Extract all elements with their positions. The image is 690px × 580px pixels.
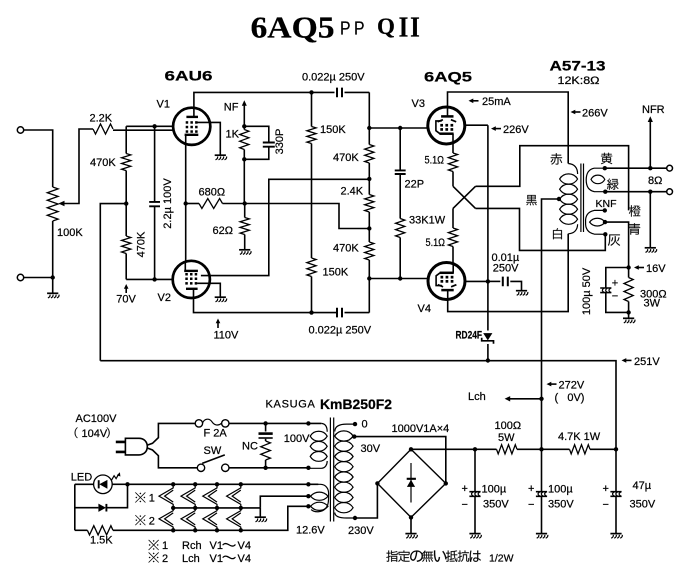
node 680-62 junction <box>243 201 247 205</box>
svg-text:5W: 5W <box>498 432 515 444</box>
ground below pot <box>47 293 59 298</box>
resistor 2.4K <box>365 179 374 229</box>
arrow 25mA <box>469 99 479 104</box>
wire 8ohm hot <box>605 167 667 169</box>
svg-text:0.022µ 250V: 0.022µ 250V <box>309 324 372 336</box>
label 62ohm <box>213 225 233 237</box>
label minus c2 <box>528 499 534 511</box>
label 33K1W <box>409 215 446 227</box>
svg-text:0: 0 <box>362 418 368 430</box>
svg-text:−: − <box>528 499 534 511</box>
wire V1 plate to top rail <box>194 92 312 107</box>
node V4 grid <box>367 276 371 280</box>
label 470K upper <box>90 157 116 169</box>
wire V1 screen to ground <box>198 122 221 155</box>
svg-text:226V: 226V <box>503 124 529 136</box>
OPT secondary 8ohm winding <box>586 168 605 192</box>
node zener rail <box>486 358 490 362</box>
arrow 251V <box>622 358 632 363</box>
resistor 470K (lower grid leak) <box>122 204 131 280</box>
label 3W <box>644 298 661 310</box>
label 12K:8ohm <box>558 75 600 87</box>
node 2.2uF top <box>152 124 156 128</box>
wire V4 plate line <box>448 234 569 312</box>
node KNF tap <box>603 208 607 212</box>
resistor 5.1ohm (V4) <box>448 228 457 263</box>
node NC top <box>263 421 267 425</box>
label plus c1 <box>462 483 468 495</box>
pot wiper arrow <box>58 129 93 206</box>
wire LED row <box>75 483 128 485</box>
svg-text:NFR: NFR <box>642 104 665 116</box>
resistor 470K (upper grid leak) <box>122 126 131 203</box>
svg-text:680Ω: 680Ω <box>199 187 226 199</box>
wire V2 grid line <box>126 278 173 280</box>
svg-text:100K: 100K <box>57 227 83 239</box>
snubber NC (cap+resistor) <box>259 423 273 467</box>
svg-text:100V: 100V <box>284 433 310 445</box>
label RD24F <box>456 330 483 342</box>
svg-text:33K1W: 33K1W <box>409 215 446 227</box>
wire gray lower path <box>476 208 606 250</box>
svg-text:1000V1A×4: 1000V1A×4 <box>392 423 450 435</box>
arrow 266V <box>571 110 581 115</box>
wire jack1 to pot top <box>24 130 53 187</box>
svg-text:12K:8Ω: 12K:8Ω <box>558 75 600 87</box>
diode RD24F zener <box>482 333 494 344</box>
label 47u <box>633 480 652 492</box>
svg-text:NF: NF <box>224 102 239 114</box>
node 22P top <box>398 126 402 130</box>
svg-text:KNF: KNF <box>596 198 617 210</box>
label KASUGA <box>266 399 316 411</box>
wire V2 screen-2 to ladder <box>201 179 369 275</box>
label 350V c3 <box>630 498 656 510</box>
svg-text:( 0V): ( 0V) <box>555 392 585 404</box>
input jack J1 (top) <box>17 127 23 133</box>
svg-text:250V: 250V <box>493 263 519 275</box>
svg-text:470K: 470K <box>333 243 359 255</box>
svg-text:1: 1 <box>149 493 155 505</box>
label 100u 50V (rotated) <box>581 267 593 315</box>
label 2.4K <box>341 186 364 198</box>
label 12.6V <box>296 524 325 536</box>
svg-text:−: − <box>603 499 609 511</box>
label V3 <box>412 98 425 110</box>
svg-text:2: 2 <box>149 515 155 527</box>
node green tap <box>603 190 607 194</box>
node Lch tap <box>539 397 543 401</box>
ground c2 <box>536 534 548 539</box>
label AC100V <box>76 413 118 425</box>
resistor 470K ladder lower <box>365 229 374 279</box>
node filter2 <box>539 447 543 451</box>
svg-text:A57-13: A57-13 <box>550 58 606 74</box>
wire crossover diagonal 2 <box>453 186 476 208</box>
heaters row 1 (Rch V1-V4) <box>159 484 241 508</box>
label 150K upper <box>320 124 346 136</box>
svg-text:II: II <box>399 13 422 44</box>
svg-text:V1: V1 <box>157 99 170 111</box>
ground 0.01u <box>516 291 528 296</box>
node screen 0.01u <box>486 279 490 283</box>
label plus c2 <box>528 483 534 495</box>
NFR arrow <box>648 116 653 168</box>
node 0 tap <box>353 422 357 426</box>
svg-text:Lch: Lch <box>182 553 200 565</box>
label 30V <box>361 443 381 455</box>
OPT core <box>581 164 584 233</box>
label plus c3 <box>603 483 609 495</box>
svg-text:V4: V4 <box>238 553 251 565</box>
label 470K ladder upper <box>333 152 359 164</box>
node 1K bottom <box>242 157 246 161</box>
node 16V <box>626 265 630 269</box>
label LED <box>71 472 92 484</box>
svg-text:5.1Ω: 5.1Ω <box>426 237 446 249</box>
label minus 100u50V <box>612 291 618 303</box>
svg-text:2.2K: 2.2K <box>90 113 113 125</box>
label *1 <box>135 492 155 504</box>
terminal 8ohm cold <box>667 189 673 195</box>
capacitor 100uF 350V #1 <box>469 449 480 533</box>
svg-text:5.1Ω: 5.1Ω <box>425 155 445 167</box>
node 1K top <box>242 124 246 128</box>
label 16V <box>646 263 666 275</box>
wire V4 grid line <box>369 278 428 280</box>
OPT primary center tap <box>542 197 562 399</box>
label (104V) <box>75 428 110 440</box>
resistor 150K (V2 plate load) <box>307 258 316 313</box>
svg-text:F 2A: F 2A <box>204 428 228 440</box>
svg-text:25mA: 25mA <box>482 96 511 108</box>
svg-text:272V: 272V <box>559 380 585 392</box>
label ki (yellow) <box>601 153 612 164</box>
wire V3 plate to OPT <box>448 92 569 164</box>
ground V2 screen <box>215 297 227 302</box>
ground 8ohm <box>645 248 657 253</box>
wire V2 plate down to 110V line <box>194 298 338 312</box>
heaters row 2 (Lch V1-V4) <box>159 508 241 530</box>
svg-text:1K: 1K <box>226 129 240 141</box>
svg-text:350V: 350V <box>548 498 574 510</box>
label F 2A <box>204 428 228 440</box>
node heater mid tap <box>306 494 310 498</box>
label 4.7K1W <box>558 431 601 443</box>
svg-text:V2: V2 <box>158 292 171 304</box>
label 110V <box>214 330 240 342</box>
ground bridge <box>405 534 417 539</box>
wire V4 cathode to 5.1ohm <box>452 208 454 228</box>
NF feedback arrow <box>242 100 247 126</box>
note *1 Rch <box>148 540 250 552</box>
tube V4 6AQ5 <box>428 263 465 301</box>
node 2.2uF bottom <box>152 277 156 281</box>
svg-text:NC: NC <box>242 441 258 453</box>
capacitor 0.022uF 250V (top) <box>312 88 370 98</box>
potentiometer 100K <box>47 187 58 221</box>
wire cathode node to ladder tap <box>245 204 370 229</box>
fuse F 2A <box>195 419 229 427</box>
svg-text:470K: 470K <box>90 157 116 169</box>
resistor 33K 1W <box>396 219 405 279</box>
label 470K ladder lower <box>333 243 359 255</box>
wire bridge bottom to ground <box>410 517 412 533</box>
title text 6AQ5 PP Q II <box>251 10 422 45</box>
node filter1 <box>473 447 477 451</box>
switch SW <box>197 455 229 472</box>
label 350V c1 <box>483 498 509 510</box>
resistor 680ohm <box>186 199 245 209</box>
svg-text:V1: V1 <box>210 540 223 552</box>
label 0 <box>362 418 368 430</box>
svg-text:47µ: 47µ <box>633 480 652 492</box>
AC plug <box>116 438 148 455</box>
svg-text:0.022µ 250V: 0.022µ 250V <box>302 71 365 83</box>
label 266V <box>582 107 608 119</box>
svg-text:266V: 266V <box>582 107 608 119</box>
wire V3 cathode to 5.1ohm <box>452 144 454 153</box>
PT core <box>330 418 333 522</box>
label 2.2u 100V (rotated) <box>162 178 174 229</box>
node 8ohm gnd junction <box>648 190 652 194</box>
bridge rectifier diamond <box>377 449 445 517</box>
resistor 62ohm <box>240 204 249 250</box>
wire V3 grid line <box>369 127 428 129</box>
node gray tap <box>603 232 607 236</box>
svg-text:V4: V4 <box>418 303 431 315</box>
wire plug to fuse <box>147 423 195 445</box>
svg-text:2.2µ 100V: 2.2µ 100V <box>162 178 174 229</box>
label NF <box>224 102 239 114</box>
wire switch to transformer <box>229 467 308 469</box>
svg-text:+: + <box>603 483 609 495</box>
svg-text:1: 1 <box>162 540 168 552</box>
label 100K <box>57 227 83 239</box>
svg-text:Rch: Rch <box>182 540 202 552</box>
wire ladder to bottom cap <box>368 279 370 313</box>
svg-text:−: − <box>462 499 468 511</box>
svg-text:3W: 3W <box>644 298 661 310</box>
svg-text:150K: 150K <box>320 124 346 136</box>
resistor 100ohm 5W <box>497 445 542 454</box>
wire bridge output <box>411 448 497 450</box>
heater junction dots <box>171 482 243 532</box>
svg-text:1.5K: 1.5K <box>90 534 113 546</box>
wire screens bus <box>487 125 489 330</box>
svg-text:70V: 70V <box>116 294 136 306</box>
svg-text:1/2W: 1/2W <box>489 552 514 564</box>
label *2 <box>135 515 155 527</box>
wire 8ohm cold <box>605 191 666 193</box>
svg-text:+: + <box>528 483 534 495</box>
node ladder mid2 <box>367 226 371 230</box>
svg-text:350V: 350V <box>483 498 509 510</box>
wire divider to B+ rail <box>100 204 126 361</box>
terminal 8ohm hot <box>667 165 673 171</box>
svg-text:2: 2 <box>162 553 168 565</box>
svg-text:V1: V1 <box>210 553 223 565</box>
resistor 150K (V1 plate load) <box>307 92 316 258</box>
capacitor 330P <box>244 126 274 159</box>
note *2 Lch <box>148 552 250 565</box>
svg-text:6AU6: 6AU6 <box>165 68 213 84</box>
wire heater bottom rail <box>173 506 308 530</box>
label 1K <box>226 129 240 141</box>
label 230V <box>348 525 374 537</box>
svg-text:150K: 150K <box>323 267 349 279</box>
label 680ohm <box>199 187 226 199</box>
label 226V <box>503 124 529 136</box>
label KNF <box>596 198 617 210</box>
node mid tap 16V <box>603 220 607 224</box>
LED D1 <box>94 472 121 493</box>
svg-text:6AQ5: 6AQ5 <box>424 69 472 85</box>
label 100u c1 <box>482 483 507 495</box>
Lch arrow <box>505 396 542 401</box>
svg-text:Lch: Lch <box>468 391 486 403</box>
svg-text:30V: 30V <box>361 443 381 455</box>
diode D2 <box>98 504 106 512</box>
svg-text:6AQ5: 6AQ5 <box>251 10 335 45</box>
node NC bottom <box>263 466 267 470</box>
label A57-13 <box>550 58 606 74</box>
svg-text:RD24F: RD24F <box>456 330 483 342</box>
tube V3 6AQ5 <box>428 106 465 144</box>
label 100V <box>284 433 310 445</box>
svg-text:62Ω: 62Ω <box>213 225 233 237</box>
arrow 70V <box>124 284 129 293</box>
node heater bottom tap <box>306 504 310 508</box>
wire 16V tap <box>605 222 629 267</box>
node primary bottom <box>306 466 310 470</box>
svg-text:470K: 470K <box>135 231 147 257</box>
capacitor 0.01uF 250V <box>488 277 522 291</box>
label NC <box>242 441 258 453</box>
svg-text:KmB250F2: KmB250F2 <box>320 397 392 412</box>
label KmB250F2 <box>320 397 392 412</box>
wire plug to switch <box>147 448 197 468</box>
node bridge left <box>375 481 379 485</box>
node 33K bottom <box>398 276 402 280</box>
resistor 1K <box>240 126 249 159</box>
label SW <box>204 445 222 457</box>
node bridge top <box>409 447 413 451</box>
wire fuse to transformer <box>229 422 321 424</box>
svg-text:100µ: 100µ <box>482 483 507 495</box>
svg-text:230V: 230V <box>348 525 374 537</box>
PT HV secondary winding <box>335 424 355 518</box>
label 150K lower <box>323 267 349 279</box>
wire V1 cathode down <box>185 144 187 262</box>
OPT primary winding <box>560 164 578 234</box>
label 330P (rotated) <box>274 129 286 155</box>
svg-text:−: − <box>612 291 618 303</box>
label 272V <box>559 380 585 392</box>
ground c3 <box>610 534 622 539</box>
svg-text:+: + <box>612 278 618 290</box>
wire mid rail up to tap <box>260 496 308 508</box>
svg-text:330P: 330P <box>274 129 286 155</box>
wire cap to V3 grid node <box>368 92 370 128</box>
wire 230V to bridge <box>355 483 377 518</box>
label 350V c2 <box>548 498 574 510</box>
OPT secondary KNF winding <box>586 210 606 234</box>
label ao (blue) <box>629 223 640 234</box>
PT 12.6V winding <box>308 484 328 511</box>
svg-text:4.7K 1W: 4.7K 1W <box>558 431 601 443</box>
node ladder mid1 <box>367 177 371 181</box>
label NFR <box>642 104 665 116</box>
label 250V <box>493 263 519 275</box>
label Lch <box>468 391 486 403</box>
wire heater top rail <box>128 483 319 485</box>
label kuro (black) <box>526 195 536 205</box>
label 6AU6 <box>165 68 213 84</box>
label 300ohm <box>640 289 667 301</box>
wire 251V rail <box>100 361 616 450</box>
label 2.2K <box>90 113 113 125</box>
label 0.022u 250V top <box>302 71 365 83</box>
svg-text:AC100V: AC100V <box>76 413 118 425</box>
PT 100V primary winding <box>308 423 327 468</box>
wire heater mid rail <box>173 507 260 509</box>
svg-text:2.4K: 2.4K <box>341 186 364 198</box>
ground 62ohm <box>239 250 251 255</box>
node pot bottom <box>51 275 55 279</box>
resistor 2.2K <box>93 124 113 134</box>
svg-text:+: + <box>462 483 468 495</box>
label 6AQ5 header <box>424 69 472 85</box>
tube V2 6AU6 <box>173 261 210 299</box>
node cathode junction <box>184 201 188 205</box>
svg-text:251V: 251V <box>634 356 660 368</box>
resistor 300ohm 3W <box>624 268 633 319</box>
capacitor 100uF 350V #2 <box>536 449 547 533</box>
label 251V <box>634 356 660 368</box>
resistor 470K ladder upper <box>365 128 374 179</box>
arrow 272V <box>547 382 557 387</box>
label 100ohm <box>495 420 522 432</box>
svg-text:100µ: 100µ <box>548 483 573 495</box>
node bridge right <box>444 481 448 485</box>
node 30V tap <box>352 434 356 438</box>
label minus c1 <box>462 499 468 511</box>
node heater top tap <box>306 482 310 486</box>
resistor 4.7K 1W <box>542 445 617 454</box>
label shiro (white) <box>553 228 562 239</box>
arrow 16V <box>634 265 644 270</box>
ground 300ohm <box>623 318 635 323</box>
label 70V <box>116 294 136 306</box>
node 470K junction <box>124 201 128 205</box>
wire crossover diagonal 1 <box>453 186 476 208</box>
svg-text:SW: SW <box>204 445 222 457</box>
label plus 100u50V <box>612 278 618 290</box>
svg-text:110V: 110V <box>214 330 240 342</box>
wire mid rail ground <box>259 508 261 517</box>
label minus c3 <box>603 499 609 511</box>
label V1 <box>157 99 170 111</box>
ground c1 <box>469 534 481 539</box>
resistor 5.1ohm (V3) <box>448 153 457 186</box>
label 1000V1A x4 <box>392 423 450 435</box>
wire 2.2K to V1 grid <box>113 129 174 131</box>
label 0.01u <box>492 252 520 264</box>
svg-text:LED: LED <box>71 472 92 484</box>
wire V4 screen right <box>465 280 488 282</box>
capacitor 100uF 50V <box>600 268 628 313</box>
